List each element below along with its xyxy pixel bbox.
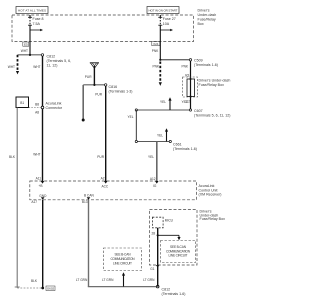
svg-text:C812: C812 — [47, 55, 56, 59]
svg-text:A11: A11 — [36, 177, 42, 181]
svg-text:28: 28 — [151, 232, 155, 236]
svg-text:X24: X24 — [153, 42, 159, 46]
svg-text:LINE CIRCUIT: LINE CIRCUIT — [169, 254, 188, 258]
svg-text:ACC: ACC — [102, 184, 109, 188]
svg-text:WHT: WHT — [21, 49, 28, 53]
svg-text:BLK: BLK — [9, 155, 16, 159]
svg-text:11, 12): 11, 12) — [47, 64, 58, 68]
svg-text:BLK: BLK — [31, 279, 38, 283]
svg-text:Driver's: Driver's — [198, 9, 210, 13]
svg-text:B1: B1 — [20, 101, 24, 105]
svg-text:Driver's Under-dash: Driver's Under-dash — [199, 79, 231, 83]
svg-text:(Terminals 5, 6, 11, 12): (Terminals 5, 6, 11, 12) — [194, 113, 230, 117]
svg-text:Box: Box — [198, 22, 204, 26]
svg-text:Fuse/Relay Box: Fuse/Relay Box — [199, 83, 225, 87]
svg-text:B13: B13 — [82, 200, 88, 204]
svg-text:LT GRN: LT GRN — [102, 278, 114, 282]
svg-text:(Terminals 1-6): (Terminals 1-6) — [194, 63, 218, 67]
svg-text:7.5A: 7.5A — [33, 22, 41, 26]
svg-text:C812: C812 — [162, 288, 171, 292]
svg-text:WHT: WHT — [33, 65, 40, 69]
svg-text:HOT IN ON OR START: HOT IN ON OR START — [149, 9, 178, 13]
svg-text:Fuse/Relay: Fuse/Relay — [198, 18, 216, 22]
svg-text:(XM Receiver): (XM Receiver) — [199, 193, 222, 197]
svg-text:Fuse 8: Fuse 8 — [33, 17, 44, 21]
svg-text:B CAN: B CAN — [84, 193, 94, 197]
svg-text:Fuse 27: Fuse 27 — [163, 17, 176, 21]
svg-text:PUR: PUR — [97, 155, 104, 159]
svg-text:A2: A2 — [101, 177, 105, 181]
svg-text:Connector: Connector — [46, 106, 63, 110]
svg-text:WHT: WHT — [8, 65, 15, 69]
svg-text:PUR: PUR — [95, 92, 102, 96]
svg-text:YEL: YEL — [148, 155, 154, 159]
svg-text:C509: C509 — [194, 59, 203, 63]
svg-text:PUR: PUR — [85, 75, 92, 79]
svg-text:Fuse/Relay Box: Fuse/Relay Box — [200, 217, 226, 221]
svg-text:A17: A17 — [31, 200, 37, 204]
svg-text:YEL: YEL — [157, 134, 163, 138]
svg-text:PNK: PNK — [152, 49, 159, 53]
svg-text:YEL: YEL — [181, 100, 187, 104]
svg-text:SEE B-CAN: SEE B-CAN — [115, 253, 132, 257]
svg-text:MICU: MICU — [165, 218, 174, 222]
svg-text:10A: 10A — [163, 22, 170, 26]
svg-text:(Terminals 5, 6,: (Terminals 5, 6, — [47, 59, 72, 63]
svg-text:(Terminals 1-3): (Terminals 1-3) — [109, 90, 133, 94]
svg-text:YEL: YEL — [127, 115, 133, 119]
svg-text:PNK: PNK — [152, 64, 159, 68]
svg-text:G602: G602 — [47, 287, 55, 291]
svg-text:LT GRN: LT GRN — [76, 278, 88, 282]
svg-text:PNK: PNK — [181, 64, 188, 68]
svg-text:G1: G1 — [150, 267, 154, 271]
svg-text:AcuraLink: AcuraLink — [46, 102, 62, 106]
svg-text:(Terminals 1-6): (Terminals 1-6) — [162, 292, 186, 296]
svg-text:LINE CIRCUIT: LINE CIRCUIT — [113, 262, 132, 266]
svg-text:IG: IG — [153, 184, 157, 188]
svg-text:Under-dash: Under-dash — [198, 13, 217, 17]
svg-text:C661: C661 — [173, 143, 182, 147]
svg-text:A8: A8 — [35, 111, 39, 115]
svg-text:WHT: WHT — [33, 153, 40, 157]
svg-text:E5: E5 — [24, 42, 28, 46]
svg-text:A12: A12 — [150, 177, 156, 181]
svg-text:LT GRN: LT GRN — [143, 278, 155, 282]
svg-text:C816: C816 — [109, 85, 118, 89]
svg-text:C607: C607 — [194, 109, 203, 113]
svg-text:COMMUNICATION: COMMUNICATION — [111, 257, 136, 261]
svg-text:YEL: YEL — [160, 100, 166, 104]
svg-text:B8: B8 — [35, 103, 39, 107]
svg-text:HOT AT ALL TIMES: HOT AT ALL TIMES — [18, 9, 46, 13]
svg-text:+B: +B — [39, 184, 43, 188]
svg-text:(Terminals 1-6): (Terminals 1-6) — [173, 147, 197, 151]
